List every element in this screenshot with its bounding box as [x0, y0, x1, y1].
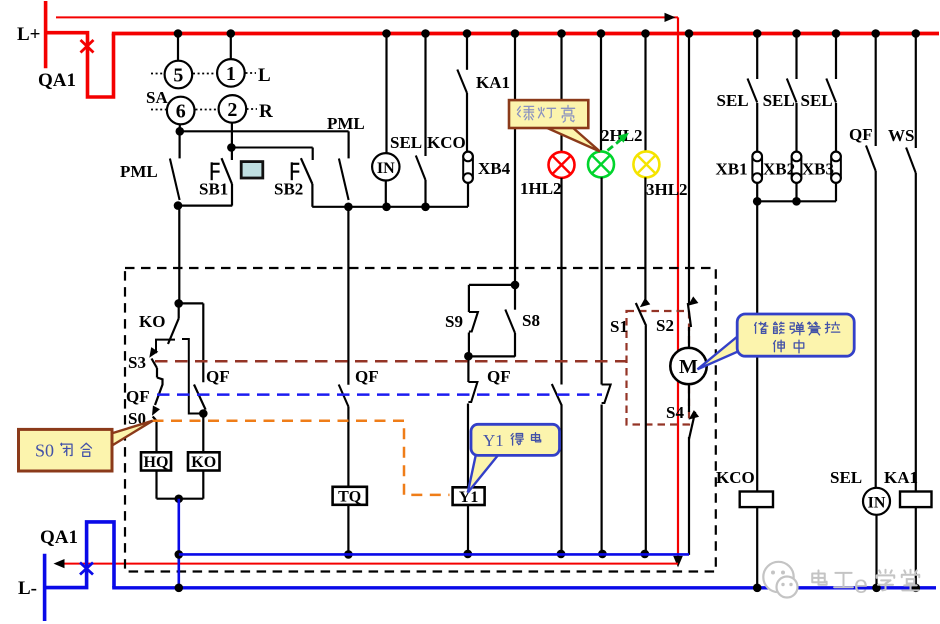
callout 储能 text line1	[755, 322, 768, 333]
wire SA-6 down	[179, 124, 181, 131]
contact SEL2	[795, 35, 797, 79]
wire join to L- (blue)	[178, 499, 181, 588]
wire L+ supply terminal	[44, 1, 48, 68]
SA contact 2	[219, 95, 247, 123]
sequence line orange	[153, 421, 450, 495]
dashed highlight box (brown)	[627, 311, 690, 425]
contact QF right	[875, 35, 877, 146]
wire L- supply terminal	[43, 554, 47, 621]
node split	[174, 299, 183, 308]
svg-text:L+: L+	[17, 24, 41, 45]
callout 储能 tail	[698, 336, 739, 369]
contact S9	[468, 285, 470, 312]
contact PML1	[179, 131, 181, 158]
QA1 lower closed-mark X	[80, 563, 93, 575]
sequence line brown	[155, 360, 627, 363]
contact KO	[178, 303, 180, 318]
wire into box TQ branch	[347, 207, 349, 385]
wire PML1 into box	[178, 206, 180, 304]
svg-text:KA1: KA1	[476, 73, 510, 92]
wire XB1 stub	[756, 183, 758, 201]
contact S3 arrow	[149, 347, 158, 358]
svg-text:1: 1	[226, 63, 236, 85]
wire bus to 3HL2	[644, 35, 646, 151]
pushbutton SB2	[312, 148, 314, 161]
svg-text:IN: IN	[868, 495, 886, 512]
svg-text:L-: L-	[18, 578, 37, 599]
callout S0闭合 box	[19, 429, 113, 471]
svg-text:SB1: SB1	[199, 180, 228, 199]
svg-text:3HL2: 3HL2	[646, 180, 688, 199]
svg-text:KCO: KCO	[427, 133, 466, 152]
svg-text:SEL: SEL	[801, 91, 833, 110]
wire SA-2 down	[231, 123, 233, 148]
svg-text:SEL: SEL	[830, 468, 862, 487]
QF right-sub bracket	[182, 339, 203, 414]
svg-text:QF: QF	[206, 367, 230, 386]
contact SEL3	[835, 35, 837, 79]
svg-text:Y1: Y1	[483, 431, 504, 450]
svg-text:SEL: SEL	[717, 91, 749, 110]
svg-text:S4: S4	[666, 403, 684, 422]
callout 储能 box	[737, 314, 854, 356]
wire bus to 2HL2	[600, 35, 602, 151]
wire control common (blue)	[179, 553, 689, 556]
lamp 2HL2 (green)	[588, 151, 614, 177]
callout 绿灯亮 tail	[545, 127, 600, 152]
svg-text:QF: QF	[126, 387, 150, 406]
svg-text:KA1: KA1	[884, 468, 918, 487]
svg-text:KO: KO	[139, 312, 165, 331]
svg-text:HQ: HQ	[144, 454, 169, 471]
svg-text:IN: IN	[377, 160, 395, 177]
svg-text:QA1: QA1	[40, 527, 78, 548]
contact S1	[640, 298, 650, 307]
wire XB2 stub	[795, 183, 797, 201]
dashed enclosure (control unit)	[125, 268, 716, 572]
wire branch join	[157, 498, 204, 500]
svg-text:SEL: SEL	[763, 91, 795, 110]
svg-text:QF: QF	[355, 367, 379, 386]
wire KO coil down	[202, 471, 204, 499]
contact QF (2HL2 branch)	[602, 385, 611, 404]
contact (1HL2 branch)	[552, 384, 562, 405]
wire lower link left	[178, 205, 232, 207]
svg-text:M: M	[679, 356, 698, 378]
SA dotted link row2	[151, 109, 166, 111]
svg-text:2: 2	[227, 99, 237, 121]
wire Y1 to blue	[467, 505, 469, 554]
contact S4	[689, 410, 699, 419]
motor M	[670, 348, 706, 384]
wire XB join	[757, 200, 836, 202]
svg-text:PML: PML	[327, 114, 365, 133]
wire L+ bus	[112, 32, 939, 36]
current path arrow top	[56, 16, 678, 18]
svg-text:e: e	[854, 571, 868, 599]
current path arrow vertical	[677, 17, 679, 557]
svg-text:XB2: XB2	[763, 160, 795, 179]
lit arrow (green)	[608, 136, 626, 151]
wire bus to S9/S8	[514, 35, 516, 285]
callout 绿灯亮 text	[517, 106, 533, 119]
lamp 3HL2 (yellow)	[633, 151, 659, 177]
wire S9 bottom	[468, 333, 470, 357]
svg-text:WS: WS	[888, 126, 914, 145]
contact KCO/SEL	[424, 35, 426, 156]
wire S4 to blue end	[688, 437, 690, 555]
svg-text:XB4: XB4	[478, 159, 511, 178]
svg-text:TQ: TQ	[338, 489, 361, 506]
wire 2HL2 down	[600, 177, 602, 384]
svg-text:KO: KO	[191, 454, 216, 471]
wire 1HL2 down	[560, 178, 562, 385]
wire XB join to KCO	[756, 201, 758, 491]
svg-text:XB3: XB3	[802, 160, 834, 179]
contact WS	[915, 35, 917, 148]
sequence line blue	[157, 393, 602, 396]
svg-text:XB1: XB1	[716, 160, 748, 179]
coil KCO	[740, 492, 773, 508]
callout S0闭合 tail	[108, 421, 153, 448]
wire bus to SA-1	[230, 35, 232, 59]
svg-text:5: 5	[173, 65, 183, 87]
wire S8 bottom link	[468, 355, 515, 357]
wire to KO coil	[202, 414, 204, 453]
svg-text:1HL2: 1HL2	[520, 179, 562, 198]
watermark text	[812, 570, 826, 584]
svg-text:SB2: SB2	[274, 180, 303, 199]
svg-text:S9: S9	[445, 312, 463, 331]
svg-text:S1: S1	[610, 317, 628, 336]
wire QF to TQ	[347, 407, 349, 487]
wire S9 top link	[469, 284, 515, 286]
wire IN1 down	[385, 181, 387, 207]
svg-text:R: R	[259, 101, 273, 122]
wire KA1 to bus	[915, 507, 917, 588]
svg-text:PML: PML	[120, 162, 158, 181]
contact PML2	[348, 131, 350, 158]
svg-text:S2: S2	[656, 316, 674, 335]
wire L- bus	[112, 586, 936, 589]
svg-text:SEL: SEL	[390, 133, 422, 152]
svg-text:KCO: KCO	[716, 468, 755, 487]
svg-text:QA1: QA1	[38, 70, 76, 91]
callout 绿灯亮 box	[509, 100, 588, 128]
contact QF (TQ branch)	[339, 385, 349, 407]
node S9S8 top	[511, 281, 520, 290]
QA1 closed-mark X	[81, 40, 94, 53]
contact QF right-sub	[194, 385, 206, 410]
svg-text:6: 6	[176, 101, 186, 123]
node right-sub	[199, 409, 208, 418]
wire node B horizontal	[231, 146, 312, 148]
disconnector QA1 (closed, red path)	[46, 33, 114, 97]
coil TQ	[333, 487, 367, 505]
bus junction dots	[174, 29, 183, 38]
wire XB3 stub	[835, 183, 837, 201]
wire QF to Y1	[467, 404, 469, 488]
callout 储能 text line2	[774, 340, 785, 352]
wire split right	[179, 302, 204, 304]
contact SEL1	[756, 35, 758, 79]
indicator square (light blue)	[241, 162, 263, 178]
svg-text:S3: S3	[128, 353, 146, 372]
wire M to S4	[688, 384, 690, 412]
wire node A horizontal	[180, 130, 349, 132]
wire bus to IN1	[385, 35, 387, 153]
SA contact 1	[217, 59, 245, 87]
wire XB4 down	[467, 183, 469, 207]
current path arrow return	[56, 563, 678, 565]
wire HQ down	[155, 471, 157, 499]
svg-text:QF: QF	[487, 367, 511, 386]
svg-text:S0: S0	[35, 441, 54, 461]
socket XB4	[463, 152, 473, 184]
wire IN2 to bus	[875, 515, 877, 588]
coil KA1	[900, 492, 932, 508]
callout Y1得电 tail	[468, 454, 499, 493]
wire bus to SA-5	[177, 35, 179, 61]
socket XB1	[752, 152, 762, 184]
lamp 1HL2 (red)	[549, 152, 575, 178]
KO latch bracket	[156, 340, 175, 354]
meter IN2 (SEL)	[863, 488, 890, 515]
svg-text:L: L	[258, 65, 271, 86]
coil HQ	[141, 452, 171, 470]
wire bus to 1HL2	[560, 35, 562, 152]
SA contact 5	[165, 61, 193, 89]
wire bus to S2	[688, 35, 690, 304]
svg-text:S8: S8	[522, 311, 540, 330]
contact S2	[688, 296, 698, 305]
node S9S8 bottom	[464, 352, 473, 361]
coil Y1	[453, 487, 485, 505]
pushbutton SB1	[231, 148, 233, 161]
SA dotted link row1	[151, 73, 164, 75]
contact KA1 top	[466, 35, 468, 70]
wire lower link right	[312, 206, 468, 208]
callout Y1得电 box	[471, 424, 560, 455]
contact S8	[514, 285, 516, 310]
coil KO	[188, 452, 220, 470]
socket XB3	[831, 152, 841, 184]
wire S2 to M	[688, 327, 690, 348]
wire TQ to blue	[347, 505, 349, 555]
watermark logo	[763, 562, 793, 592]
SA contact 6	[167, 97, 195, 125]
contact S0 arrow	[152, 406, 160, 416]
wire S0 to HQ	[155, 421, 157, 453]
svg-text:SA: SA	[146, 88, 168, 107]
wire 3HL2 down	[644, 177, 646, 303]
disconnector QA1 lower (blue path)	[45, 522, 114, 588]
contact QF (Y1 branch)	[467, 356, 469, 382]
contact QF left-chain	[155, 378, 163, 406]
meter IN1	[372, 153, 399, 180]
svg-text:QF: QF	[849, 125, 873, 144]
wire KCO to bus	[756, 507, 758, 588]
socket XB2	[792, 152, 802, 184]
